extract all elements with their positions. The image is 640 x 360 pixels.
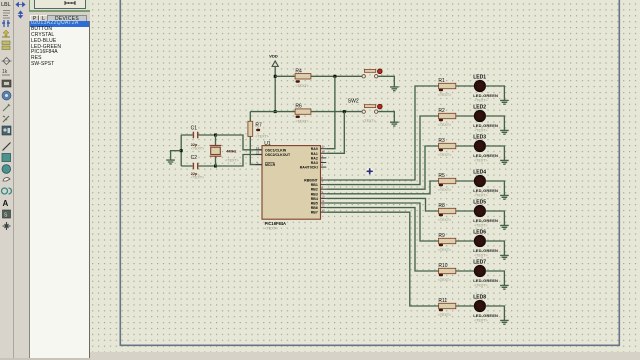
pin 2 RA3 [321,162,327,164]
svg-text:R4: R4 [295,68,302,74]
LED LED4 LED-GREEN [474,175,485,186]
wire LED1 to ground [486,86,505,100]
svg-text:<TEXT>: <TEXT> [265,227,278,231]
LED LED7 LED-GREEN [474,265,485,276]
pin 7 RB1 [321,184,327,186]
svg-text:LED7: LED7 [473,259,486,265]
wire R8 to LED5 [456,210,475,212]
svg-text:LED8: LED8 [473,294,486,300]
switch SW1 button [362,69,382,78]
node junction crystal bottom [214,165,217,168]
wire RB6 to R10 [326,208,438,271]
wire R11 to LED8 [456,305,475,307]
svg-text:RA3: RA3 [311,161,318,165]
resistor R6 [295,109,311,114]
svg-text:RA2: RA2 [311,156,318,160]
pin 8 RB2 [321,188,327,190]
pin 9 RB3 [321,193,327,195]
pin 6 RB0/INT [321,179,327,181]
wire LED7 to ground [486,271,505,285]
wire R9 to LED6 [456,240,475,242]
svg-text:<TEXT>: <TEXT> [438,313,451,317]
svg-text:R8: R8 [438,203,445,209]
wire LED5 to ground [486,211,505,225]
svg-text:RB5: RB5 [311,202,318,206]
wire SW2 to ground [378,112,394,123]
svg-text:<TEXT>: <TEXT> [438,218,451,222]
resistor R5 [439,178,456,183]
node junction crystal top [214,134,217,137]
wire LED4 to ground [486,181,505,195]
svg-text:R1: R1 [438,78,445,84]
wire R2 to LED2 [456,115,475,117]
svg-text:LED-GREEN: LED-GREEN [473,278,498,283]
svg-text:<TEXT>: <TEXT> [362,119,375,123]
svg-text:R2: R2 [438,108,445,114]
svg-text:LED-GREEN: LED-GREEN [473,188,498,193]
svg-text:<TEXT>: <TEXT> [191,175,204,179]
pin 16 OSC1/CLKIN [256,149,262,151]
svg-text:OSC2/CLKOUT: OSC2/CLKOUT [265,153,291,157]
wire R6 corner to R7 [249,112,251,122]
pin 18 RA1 [321,152,327,154]
svg-text:LED1: LED1 [473,74,486,80]
svg-text:<TEXT>: <TEXT> [474,283,487,287]
ground G3 [166,160,175,164]
pin 3 RA4/T0CKI [321,166,327,168]
wire RB1 to R2 [326,116,438,185]
svg-text:R11: R11 [438,298,447,304]
resistor R9 [439,238,456,243]
svg-text:RB2: RB2 [311,188,318,192]
svg-text:<TEXT>: <TEXT> [191,146,204,150]
svg-text:LED2: LED2 [473,104,486,110]
svg-text:<TEXT>: <TEXT> [438,248,451,252]
svg-text:LED4: LED4 [473,169,486,175]
svg-text:PIC16F84A: PIC16F84A [265,221,286,226]
ground LED1 [500,100,509,104]
wire crystal leads [215,135,217,166]
resistor R8 [439,208,456,213]
svg-text:LED-GREEN: LED-GREEN [473,248,498,253]
ground LED3 [500,160,509,164]
svg-text:<TEXT>: <TEXT> [474,253,487,257]
resistor R4 [295,74,311,79]
svg-text:<TEXT>: <TEXT> [474,193,487,197]
LED LED8 LED-GREEN [474,300,485,311]
svg-text:1k: 1k [2,69,8,75]
wire RB7 to R11 [326,212,438,306]
wire VDD vertical [274,66,276,111]
svg-text:<TEXT>: <TEXT> [474,223,487,227]
svg-text:<TEXT>: <TEXT> [295,120,308,124]
wire R1 to LED1 [456,85,475,87]
LED LED5 LED-GREEN [474,205,485,216]
svg-text:C2: C2 [191,155,198,161]
resistor R1 [439,83,456,88]
svg-text:LED-GREEN: LED-GREEN [473,123,498,128]
svg-text:<TEXT>: <TEXT> [295,84,308,88]
wire RB3 to R5 [326,181,438,194]
svg-text:RA1: RA1 [311,152,318,156]
svg-text:17: 17 [321,145,325,149]
pin 17 RA0 [321,148,327,150]
wire caps left vertical [180,135,182,166]
resistor R11 [439,303,456,308]
svg-text:RA4/T0CKI: RA4/T0CKI [300,166,318,170]
wire LED8 to ground [486,306,505,320]
svg-text:<TEXT>: <TEXT> [438,123,451,127]
ground G1 [390,87,399,91]
wire RB0 to R1 [326,86,438,180]
svg-text:SW2: SW2 [348,99,359,105]
wire R6 to SW2 [311,111,362,113]
svg-text:RB3: RB3 [311,192,318,196]
wire crystal to OSC1 [216,135,263,150]
pin 12 RB6 [321,207,327,209]
ground LED4 [500,195,509,199]
wire LED2 to ground [486,116,505,130]
pin 10 RB4 [321,197,327,199]
wire R5 to LED4 [456,180,475,182]
svg-text:MCLR: MCLR [265,163,276,167]
svg-text:R7: R7 [255,122,262,128]
svg-text:4MHz: 4MHz [226,148,236,153]
pin 13 RB7 [321,211,327,213]
svg-text:15: 15 [256,151,260,155]
wire R3 to LED3 [456,145,475,147]
svg-text:A: A [3,199,9,208]
wire SW1 to ground [378,76,394,87]
svg-text:<TEXT>: <TEXT> [438,188,451,192]
svg-text:R5: R5 [438,173,445,179]
wire LED3 to ground [486,146,505,160]
LED LED6 LED-GREEN [474,235,485,246]
svg-text:RB1: RB1 [311,183,318,187]
svg-text:11: 11 [321,199,324,203]
wire ground tap [171,151,182,160]
node origin marker [366,168,373,175]
resistor R10 [439,268,456,273]
LED LED3 LED-GREEN [474,140,485,151]
svg-text:RB4: RB4 [311,197,318,201]
svg-text:12: 12 [321,204,325,208]
svg-text:LED-GREEN: LED-GREEN [473,93,498,98]
svg-text:16: 16 [256,146,260,150]
wire RA0 vertical [326,76,335,148]
svg-text:<TEXT>: <TEXT> [225,158,238,162]
svg-text:C1: C1 [191,125,198,131]
svg-text:<TEXT>: <TEXT> [438,93,451,97]
svg-text:RA0: RA0 [311,147,318,151]
svg-text:13: 13 [321,208,325,212]
svg-text:RB0/INT: RB0/INT [304,179,318,183]
svg-text:R9: R9 [438,233,445,239]
wire R7 to MCLR [250,136,262,164]
svg-text:LED5: LED5 [473,199,486,205]
resistor R7 [248,121,253,136]
pin 15 OSC2/CLKOUT [256,154,262,156]
wire LED6 to ground [486,241,505,255]
node junction R6/RA1 [343,110,346,113]
node junction VDD/R4 [274,75,277,78]
svg-text:LED-GREEN: LED-GREEN [473,218,498,223]
svg-text:LED-GREEN: LED-GREEN [473,313,498,318]
pin 1 RA2 [321,157,327,159]
ground LED2 [500,130,509,134]
LED LED1 LED-GREEN [474,80,485,91]
ground LED6 [500,255,509,259]
node junction R4/RA0 [333,75,336,78]
svg-text:10: 10 [321,195,325,199]
wire RA1 vertical [326,112,344,154]
svg-text:<TEXT>: <TEXT> [474,128,487,132]
wire R4 row left [275,75,295,77]
sheet border [120,0,619,345]
resistor R2 [439,113,456,118]
svg-text:<TEXT>: <TEXT> [474,158,487,162]
svg-text:<TEXT>: <TEXT> [438,153,451,157]
LED LED2 LED-GREEN [474,110,485,121]
ground LED5 [500,225,509,229]
svg-text:18: 18 [321,149,325,153]
svg-text:R3: R3 [438,138,445,144]
svg-text:LED-GREEN: LED-GREEN [473,153,498,158]
pin 11 RB5 [321,202,327,204]
svg-text:<TEXT>: <TEXT> [474,318,487,322]
svg-text:RB7: RB7 [311,211,318,215]
node junction VDD/R6 [274,110,277,113]
svg-text:LED6: LED6 [473,229,486,235]
svg-text:RB6: RB6 [311,206,318,210]
ground LED8 [500,320,509,324]
svg-text:<TEXT>: <TEXT> [438,278,451,282]
wire RB5 to R9 [326,203,438,241]
switch SW2 button [362,104,382,113]
svg-text:OSC1/CLKIN: OSC1/CLKIN [265,148,287,152]
resistor R3 [439,143,456,148]
wire crystal to OSC2 [216,155,263,167]
ground G2 [390,122,399,126]
node junction caps/ground [180,149,183,152]
wire R4 to SW1 [311,75,362,77]
ground LED7 [500,285,509,289]
wire R6 row left [250,111,295,113]
wire R10 to LED7 [456,270,475,272]
power symbol VDD arrow [272,61,278,67]
svg-text:LBL: LBL [1,2,11,8]
svg-text:VDD: VDD [269,53,278,58]
svg-text:<TEXT>: <TEXT> [255,135,268,139]
pin 4 MCLR [256,164,262,166]
svg-text:<TEXT>: <TEXT> [474,98,487,102]
svg-text:R6: R6 [295,104,302,110]
svg-text:R10: R10 [438,263,447,269]
crystal X1 4MHz [210,146,222,157]
svg-text:LED3: LED3 [473,134,486,140]
wire RB4 to R8 [326,198,438,211]
wire RB2 to R3 [326,146,438,189]
